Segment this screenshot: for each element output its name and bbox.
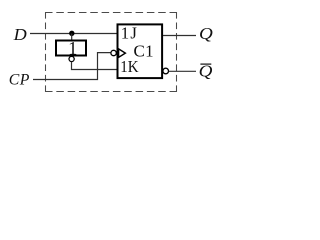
svg-text:CP: CP	[9, 72, 30, 89]
flip-flop U1 box	[118, 24, 163, 78]
C1 inversion bubble	[111, 50, 116, 55]
svg-text:D: D	[13, 25, 28, 44]
dashed enclosure bottom border	[45, 91, 177, 93]
wire Q output	[163, 35, 196, 37]
junction dot node	[69, 31, 74, 36]
wire Q-bar output	[169, 70, 196, 72]
inverter G1 box	[56, 41, 86, 56]
svg-text:1K: 1K	[120, 57, 138, 76]
dashed enclosure top border	[45, 12, 177, 14]
svg-text:1J: 1J	[121, 24, 138, 43]
dashed enclosure left border	[45, 12, 47, 92]
dashed enclosure right border	[176, 12, 178, 92]
output label Q-bar overline	[200, 63, 211, 65]
wire D input to 1J	[30, 33, 117, 35]
wire CP input to C1	[33, 53, 111, 80]
wire inverter output to 1K	[72, 62, 118, 70]
wire junction to inverter G1	[71, 34, 73, 41]
svg-text:Q: Q	[199, 61, 213, 80]
Q-bar output bubble	[163, 68, 169, 74]
inverter G1 output bubble	[69, 56, 74, 61]
dynamic input triangle C1	[119, 49, 126, 58]
svg-text:Q: Q	[199, 24, 213, 43]
